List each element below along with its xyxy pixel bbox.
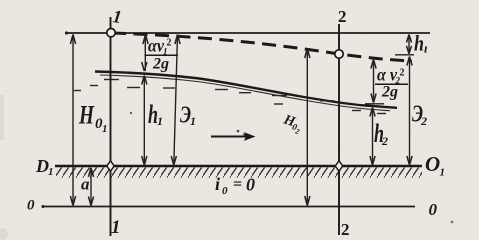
channel bottom hatching [56, 168, 422, 178]
dimension h2 line [372, 108, 374, 166]
flow direction arrow [211, 136, 247, 138]
dimension alpha-v2/2g line [373, 60, 375, 103]
svg-text:1: 1 [190, 114, 196, 128]
small scan speck bottom right [451, 221, 454, 224]
svg-text:0: 0 [222, 185, 228, 197]
svg-text:=: = [233, 176, 242, 193]
dimension E2 line [409, 57, 411, 166]
water surface main curve [95, 72, 397, 108]
svg-text:2: 2 [381, 134, 388, 148]
svg-text:2: 2 [400, 68, 405, 79]
svg-text:0: 0 [27, 198, 35, 214]
scan smudge left edge [0, 95, 4, 140]
datum line left end dot [42, 205, 45, 208]
svg-text:2g: 2g [381, 84, 398, 101]
svg-text:2: 2 [167, 38, 172, 49]
small scan speck above flow arrow [237, 130, 240, 133]
water level dash marks under surface [74, 90, 81, 92]
svg-text:a: a [81, 175, 90, 194]
energy level tick at right [395, 54, 414, 56]
diamond node at section 2 bottom [335, 161, 342, 171]
dimension h1 line [143, 76, 145, 166]
section line 2 [338, 24, 340, 235]
svg-text:ı: ı [424, 41, 428, 56]
svg-text:i: i [215, 174, 220, 194]
diamond node at section 1 bottom [107, 161, 114, 171]
svg-text:1: 1 [102, 123, 108, 135]
svg-text:h: h [414, 31, 424, 56]
svg-text:0: 0 [246, 175, 255, 195]
svg-text:1: 1 [48, 166, 54, 178]
svg-text:0: 0 [429, 200, 438, 219]
svg-text:2g: 2g [152, 56, 169, 73]
water level tick at section 2 [365, 103, 384, 105]
node circle at section 1 [107, 29, 115, 37]
label H02 (rotated) [280, 112, 304, 136]
dimension a line [90, 168, 92, 205]
svg-text:1: 1 [157, 114, 163, 128]
section line 1 [110, 17, 112, 236]
top energy reference line [66, 32, 430, 34]
scan smudge bottom-left corner [0, 228, 8, 240]
svg-text:1: 1 [440, 167, 446, 179]
svg-text:O: O [425, 152, 440, 176]
svg-text:2: 2 [420, 114, 427, 128]
svg-text:2: 2 [341, 220, 350, 239]
datum line O-O [42, 206, 415, 208]
svg-text:2: 2 [338, 7, 347, 26]
dimension H01 line [72, 35, 74, 205]
svg-text:1: 1 [111, 217, 121, 238]
dimension alpha-v1/2g line [144, 35, 146, 71]
svg-text:D: D [35, 156, 49, 176]
node circle at section 2 [335, 50, 343, 58]
dashed energy grade line [112, 33, 412, 61]
dimension H02 line [306, 49, 308, 205]
channel bottom line [55, 165, 422, 168]
small scan speck near H01 [130, 112, 132, 114]
water surface companion thin line [100, 75, 390, 111]
top line left end dot [65, 31, 68, 34]
svg-text:H: H [78, 101, 94, 130]
dimension ht line [408, 35, 410, 54]
dimension E1 line [174, 35, 178, 166]
